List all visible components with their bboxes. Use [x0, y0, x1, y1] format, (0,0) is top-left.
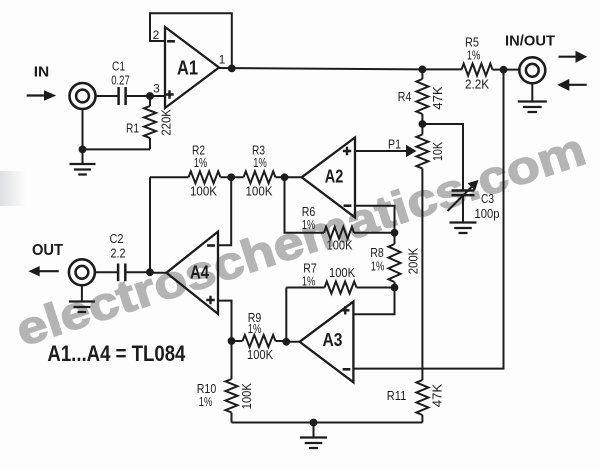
node [228, 337, 236, 345]
svg-text:0.27: 0.27 [111, 73, 130, 88]
svg-text:2.2K: 2.2K [465, 76, 489, 91]
svg-text:47K: 47K [430, 383, 445, 407]
svg-text:A4: A4 [190, 263, 209, 283]
node pin3 [146, 92, 154, 100]
svg-text:1%: 1% [253, 155, 267, 170]
ground [69, 285, 95, 312]
wire [96, 95, 119, 97]
connector J2 IN/OUT [519, 57, 545, 83]
node [228, 65, 236, 73]
svg-text:100K: 100K [327, 238, 353, 253]
resistor R11 [387, 380, 445, 423]
node [391, 284, 399, 292]
wire [83, 109, 151, 149]
wire A1 output [219, 68, 422, 69]
svg-text:100K: 100K [247, 347, 273, 362]
svg-text:1%: 1% [302, 273, 316, 288]
ground [450, 223, 477, 234]
svg-text:A1...A4 = TL084: A1...A4 = TL084 [47, 341, 186, 366]
svg-text:P1: P1 [388, 137, 401, 152]
resistor R4 [398, 69, 445, 124]
svg-text:1%: 1% [302, 217, 316, 232]
svg-text:47K: 47K [430, 86, 445, 110]
wire [95, 271, 117, 273]
wire A4 plus [218, 301, 232, 341]
connector J1 IN [70, 83, 96, 109]
wire A3 out [286, 288, 299, 342]
wire right bus [353, 70, 503, 369]
node [391, 229, 399, 237]
wire A2 minus [355, 206, 395, 233]
wire A4 out [126, 271, 166, 274]
wire P1 bottom [421, 169, 423, 381]
wire R2 left down [149, 177, 151, 272]
wire A3 plus [353, 288, 394, 315]
wire A2 out [285, 176, 302, 178]
wire A2out down [285, 177, 325, 233]
node [310, 419, 318, 427]
arrow in-left [557, 79, 587, 91]
svg-text:C1: C1 [112, 59, 125, 74]
scan artifact [0, 171, 26, 206]
node [227, 173, 235, 181]
svg-text:100K: 100K [190, 183, 217, 198]
op-amp A1 [165, 27, 219, 108]
watermark electroschematics.com [10, 123, 592, 356]
resistor R5 [422, 35, 519, 92]
node [281, 173, 289, 181]
label IN/OUT [505, 33, 555, 50]
potentiometer P1 [355, 124, 445, 169]
svg-text:100p: 100p [475, 206, 500, 221]
node [500, 66, 508, 74]
node [146, 268, 154, 276]
svg-text:1%: 1% [248, 321, 262, 336]
arrow IN [27, 90, 57, 101]
resistor R3 [231, 143, 284, 199]
ground [300, 423, 327, 449]
label A1...A4 = TL084 [47, 341, 186, 366]
resistor R9 [232, 310, 287, 362]
capacitor C2 [110, 231, 126, 281]
op-amp A2 [302, 138, 355, 218]
capacitor C3 [448, 180, 500, 223]
arrow out-right [559, 51, 588, 63]
svg-text:IN/OUT: IN/OUT [505, 33, 555, 50]
resistor R6 [302, 204, 395, 252]
svg-text:220K: 220K [159, 109, 174, 136]
arrow OUT [28, 266, 58, 276]
label OUT [32, 242, 63, 259]
svg-text:10K: 10K [430, 142, 445, 161]
svg-text:3: 3 [153, 82, 160, 96]
connector J3 OUT [69, 259, 95, 285]
svg-text:C3: C3 [481, 191, 494, 206]
svg-text:R11: R11 [387, 388, 407, 403]
svg-text:100K: 100K [329, 265, 355, 280]
resistor R7 [286, 260, 394, 293]
op-amp A3 [300, 302, 354, 383]
svg-text:A1: A1 [177, 58, 198, 80]
wire [127, 95, 165, 97]
wire C3 branch [422, 124, 463, 190]
svg-text:1%: 1% [194, 155, 208, 170]
node [419, 66, 427, 74]
label pin 2 [153, 28, 160, 42]
svg-text:2.2: 2.2 [111, 245, 126, 260]
node [419, 120, 427, 128]
resistor R10 [197, 341, 254, 423]
ground [70, 149, 96, 174]
resistor R1 [126, 96, 174, 149]
resistor R8 [370, 233, 420, 288]
label pin 3 [153, 82, 160, 96]
label IN [34, 64, 50, 81]
wire feedback A1 [150, 13, 232, 68]
node [79, 146, 87, 154]
svg-text:A3: A3 [323, 330, 343, 350]
op-amp A4 [166, 232, 218, 314]
ground [518, 83, 547, 112]
capacitor C1 [111, 59, 130, 106]
node [282, 338, 290, 346]
wire bottom [232, 422, 423, 424]
svg-text:200K: 200K [405, 247, 420, 274]
label pin 1 [219, 53, 226, 67]
svg-text:IN: IN [34, 64, 50, 81]
svg-text:1%: 1% [199, 394, 213, 409]
svg-text:100K: 100K [239, 383, 254, 409]
resistor R2 [150, 143, 231, 199]
wire A4 minus [218, 177, 231, 245]
svg-text:2: 2 [153, 28, 160, 42]
svg-text:R4: R4 [398, 89, 412, 104]
svg-text:100K: 100K [246, 183, 273, 198]
svg-text:A2: A2 [325, 166, 344, 186]
svg-text:R1: R1 [126, 121, 139, 136]
svg-text:1%: 1% [371, 259, 385, 274]
svg-text:OUT: OUT [32, 242, 63, 259]
svg-text:1%: 1% [467, 48, 481, 63]
svg-text:1: 1 [219, 53, 226, 67]
svg-text:C2: C2 [110, 231, 124, 246]
